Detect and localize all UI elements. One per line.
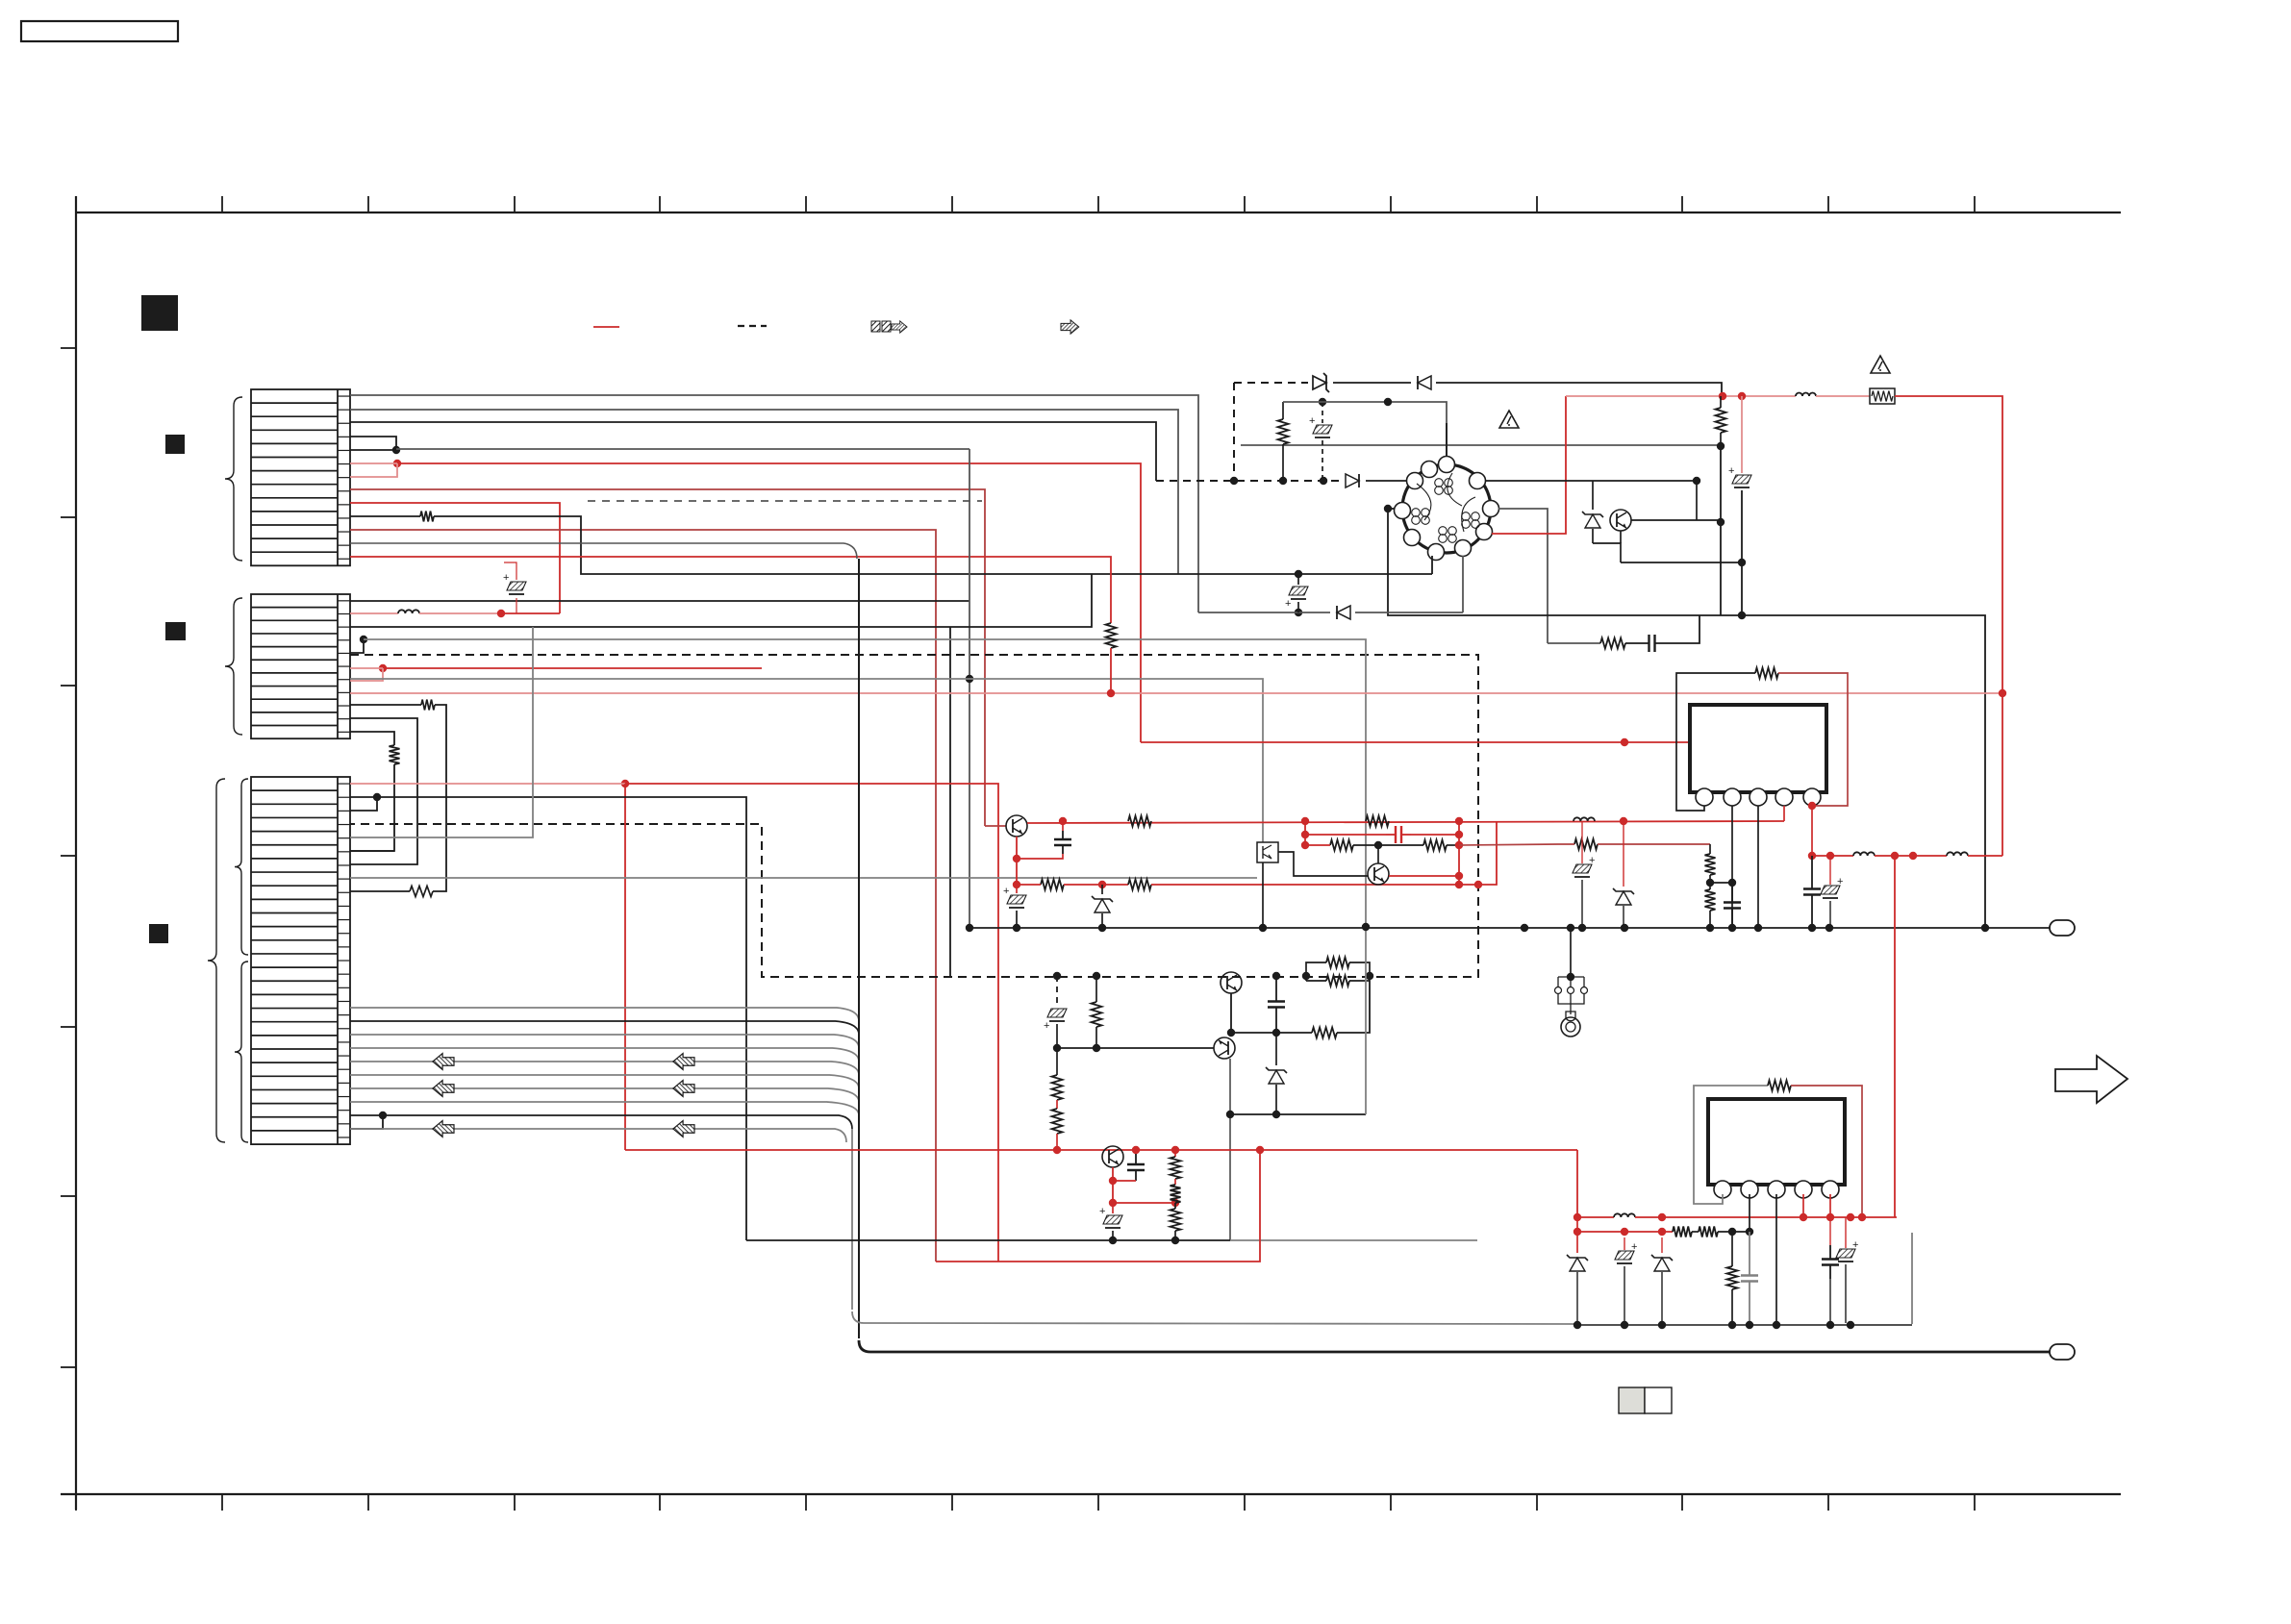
node elco col a <box>1738 559 1746 566</box>
wire y1074 <box>1231 1032 1312 1034</box>
node y1159 b <box>1272 1111 1280 1118</box>
node rb 1099 <box>1053 1146 1061 1154</box>
dashed net vertical <box>1233 383 1235 481</box>
wire red right col <box>2001 693 2003 856</box>
node T4 920 <box>1013 881 1020 888</box>
wire diode row b <box>1355 612 1463 613</box>
wire drum S stub1 <box>1431 556 1433 574</box>
wire bus to drum <box>1366 480 1406 482</box>
legend dashed wire sample <box>738 325 767 327</box>
wire CN2 pin5 stub <box>350 639 364 653</box>
node red y772 <box>1621 738 1628 746</box>
wire gnd tap <box>1570 928 1572 977</box>
page link arrow <box>2055 1056 2127 1103</box>
node gnd 1828 <box>1754 924 1762 932</box>
node x1140 base <box>1093 1044 1100 1052</box>
wire CN3 y885 <box>350 850 394 852</box>
wire red y1251 <box>1113 1202 1175 1204</box>
node bus1290 a <box>1109 1237 1117 1244</box>
wire break arrow at 696,1132 <box>673 1081 694 1097</box>
wire zener top <box>1592 481 1594 508</box>
wire CN1 pin6 red <box>350 463 1141 742</box>
resistor R x1801 <box>1727 1232 1738 1325</box>
wire CN2 pin1 black <box>350 449 969 928</box>
node r854 b <box>1301 817 1309 825</box>
border tick marks bottom <box>76 1494 1975 1511</box>
resistor R y1074 <box>1312 981 1370 1038</box>
wire x1420 lower <box>1365 927 1367 1114</box>
node gnd2 1924 <box>1847 1321 1854 1329</box>
transistor Q T2 <box>1214 1037 1235 1059</box>
wire T2 base <box>1057 1047 1214 1049</box>
node x1140 dashed <box>1093 972 1100 980</box>
wire T4 feed <box>985 825 1006 827</box>
warning symbol 1 <box>1499 411 1519 428</box>
node gnd 1689 <box>1621 924 1628 932</box>
diode D2 top row <box>1418 376 1431 389</box>
connector CN2 brace <box>225 598 242 735</box>
capacitor C T3 <box>1113 1150 1145 1181</box>
node CN3 red top <box>621 780 629 787</box>
node div a <box>1706 879 1714 887</box>
red loop bottom <box>936 1150 1260 1262</box>
capacitor C elco x1645 <box>1573 821 1595 928</box>
node elco col b <box>1738 612 1746 619</box>
wire CN1 pin8 red <box>350 503 560 613</box>
IC U1 pins <box>1696 788 1821 806</box>
node gnd2 1801 <box>1728 1321 1736 1329</box>
node feeder drum left <box>1384 505 1392 512</box>
node gnd2 1903 <box>1826 1321 1834 1329</box>
node resistor col mid <box>1717 518 1725 526</box>
diode D3 on bus <box>1346 474 1359 487</box>
node gray row y597 <box>1295 570 1302 578</box>
resistor pair loop <box>1306 958 1370 987</box>
node IC2 b <box>1573 1228 1581 1236</box>
capacitor C elco T3 <box>1099 1203 1122 1240</box>
border frame left line <box>75 196 77 1510</box>
wire drum vert down <box>1388 509 1985 928</box>
fuse F1 <box>1870 388 1895 404</box>
wire U1 pin3 down <box>1757 806 1759 928</box>
node y920 z <box>1098 881 1106 888</box>
wire CN2 pin9 jumper with R <box>350 700 446 897</box>
wire y1266 b <box>1635 1216 1897 1218</box>
wire CN3 red top <box>350 784 998 1262</box>
wire T3 em2 <box>1112 1181 1114 1203</box>
node rb 1310 <box>1256 1146 1264 1154</box>
wire top row to red bus <box>1436 383 1722 396</box>
node CN3 stub 1162 <box>379 1112 387 1119</box>
zener ZD x1728 <box>1651 1237 1673 1323</box>
wire U2 pin4 down <box>1802 1194 1804 1217</box>
wire CN2 red to vert <box>501 612 560 614</box>
wire y879 m <box>1353 844 1423 846</box>
node x1099 base <box>1053 1044 1061 1052</box>
resistor R y920 b <box>1128 880 1478 890</box>
resistor R U1 loop <box>1755 668 1778 679</box>
capacitor C drum-RC <box>1625 615 1699 652</box>
wire CN1 pin4 stub <box>350 437 396 450</box>
node gnd 1801 <box>1728 924 1736 932</box>
zener ZD right <box>1582 508 1603 543</box>
node y920 r1 <box>1455 881 1463 888</box>
node dashed bus 1 <box>1230 477 1238 485</box>
capacitor C elco drum <box>1285 574 1308 612</box>
transistor Q T5 <box>1368 863 1389 885</box>
node y890 a <box>1826 852 1834 860</box>
node y1287 1689 <box>1621 1228 1628 1236</box>
wire Q collector <box>1631 519 1721 521</box>
wire CN2 pin6 red <box>350 667 762 669</box>
resistor R y1287 a <box>1673 1227 1692 1237</box>
wire break arrow at 696,1174 <box>673 1121 694 1137</box>
wire U1 pin2 down <box>1731 806 1733 928</box>
gray feeder line y418 <box>1283 402 1447 467</box>
wire U1 pin5 down <box>1811 806 1813 856</box>
wire bundle vertical <box>858 559 860 1338</box>
node loop <box>1302 972 1310 980</box>
connector 3pin <box>1555 977 1588 1014</box>
wire CN2 pin10 jumper <box>350 718 417 864</box>
node bus1290 b <box>1171 1237 1179 1244</box>
resistor R below red bus <box>1716 396 1726 446</box>
resistor R div lower <box>1705 883 1716 928</box>
node pink-vert <box>1107 689 1115 697</box>
node loop b <box>1366 972 1373 980</box>
wire x1517 column <box>1458 821 1460 885</box>
wire CN3 gray y912 <box>350 877 1257 879</box>
section marker square 1 <box>141 295 178 331</box>
wire red to fuse <box>1816 395 1870 397</box>
dashed box path <box>350 655 1478 977</box>
wire gray up x1988 <box>1911 1233 1913 1324</box>
wire CN2 pin7 stub red <box>350 668 383 681</box>
svg-text:+: + <box>1631 1241 1637 1253</box>
wire y890 r <box>1968 855 2002 857</box>
svg-text:+: + <box>1837 876 1843 887</box>
border tick marks top <box>76 196 1975 212</box>
red row y890 <box>1812 855 1853 857</box>
node T1 c <box>1227 1029 1235 1037</box>
node y879 l <box>1301 841 1309 849</box>
resistor R y854 a <box>1128 816 1151 827</box>
node gnd 1585 <box>1521 924 1528 932</box>
resistor R y854 b <box>1366 816 1389 827</box>
wire U1 pin4 down <box>1783 806 1785 821</box>
node y1266 1919 <box>1847 1213 1854 1221</box>
wire U2 pin2 down <box>1749 1194 1750 1232</box>
connector CN2 body <box>251 594 350 738</box>
node gray feed <box>1717 442 1725 450</box>
resistor R x1222 b <box>1171 1185 1181 1203</box>
wire T2 down <box>1229 1059 1231 1240</box>
node T3 a <box>1109 1177 1117 1185</box>
node gnd 1146 <box>1098 924 1106 932</box>
wire CN1 pin2 gray run <box>350 410 1178 574</box>
resistor R U2 loop <box>1768 1081 1791 1091</box>
wire CN3 stub 1175 <box>350 1115 383 1129</box>
node cap T1 <box>1272 972 1280 980</box>
node pink-right <box>1999 689 2006 697</box>
wire U2 loop red <box>1791 1086 1862 1217</box>
node y890 b <box>1891 852 1899 860</box>
resistor R x1140 <box>1092 976 1102 1048</box>
node y890 c <box>1909 852 1917 860</box>
wire elco col down <box>1741 562 1743 615</box>
wire CN3 pin stub 843 <box>350 797 377 811</box>
diode D4 gray row <box>1337 606 1350 619</box>
node T5 out <box>1455 872 1463 880</box>
capacitor C div <box>1724 883 1741 928</box>
IC U1 body <box>1690 705 1826 792</box>
zener ZD x1640 <box>1567 1255 1588 1323</box>
wire CN2 pin8 gray <box>350 679 1263 842</box>
terminal oval right <box>2050 920 2075 936</box>
resistor R y1287 b <box>1692 1227 1750 1237</box>
border frame bottom line <box>61 1493 2121 1495</box>
wire CN1 pin7 red <box>350 489 985 826</box>
wire CN2 pin3 black <box>350 574 1092 976</box>
wire U2 pin1 loop <box>1694 1086 1768 1204</box>
node U1 pin5 b <box>1808 852 1816 860</box>
capacitor C x1819 <box>1741 1232 1758 1325</box>
wire IC2 col <box>1576 1215 1578 1253</box>
wire fuse to right red <box>1895 396 2002 693</box>
zener ZD y920 <box>1092 885 1113 928</box>
resistor R red col x1155 <box>1106 623 1117 693</box>
terminal oval bottom <box>2050 1344 2075 1360</box>
wire U2 pin5 down <box>1829 1194 1831 1217</box>
resistor R on CN1 pin10 <box>350 512 1432 575</box>
capacitor C elco y890 <box>1821 856 1843 928</box>
node red y1251 b <box>1171 1199 1179 1207</box>
svg-text:+: + <box>1589 855 1595 866</box>
resistor R div upper <box>1705 844 1716 883</box>
section marker square 3 <box>165 622 186 640</box>
drum rotary transformer <box>1395 457 1499 561</box>
node dashed bus 3 <box>1320 477 1327 485</box>
node CN1 red junction <box>393 460 401 467</box>
legend arrow symbol 1 <box>871 321 907 333</box>
diode D1 top dashed row <box>1313 373 1329 392</box>
wire U1 pin1 loop <box>1676 673 1755 811</box>
node U2 loop <box>1858 1213 1866 1221</box>
wire CN3 y829 long <box>350 797 746 1240</box>
node gnd 1902 <box>1825 924 1833 932</box>
wire CN3 bundle rows <box>350 1008 859 1115</box>
wire CN1 pin6 red stub <box>350 463 397 477</box>
wire CN2 gray y661 <box>364 639 1366 927</box>
wire T4 em2 <box>1016 859 1018 885</box>
node gnd2 1689 <box>1621 1321 1628 1329</box>
connector CN3 body <box>251 777 350 1144</box>
svg-text:+: + <box>1285 598 1291 610</box>
capacitor C x1903b <box>1822 1217 1839 1323</box>
red bus into IC2 <box>1576 1150 1578 1217</box>
wire thick bus 1404 <box>859 1340 2050 1352</box>
zener ZD x1688 <box>1613 821 1634 928</box>
red row y1266 <box>1577 1216 1614 1218</box>
node y879 mid <box>1374 841 1382 849</box>
legend square gray <box>1619 1387 1645 1413</box>
wire drum S stub2 <box>1462 556 1464 612</box>
node gnd tap <box>1567 973 1574 981</box>
red row y1287 <box>1577 1231 1673 1233</box>
red row y879 <box>1305 840 1353 851</box>
inductor L y890 a <box>1853 852 1875 856</box>
warning symbol 2 <box>1871 356 1890 373</box>
wire CN3 red vert <box>624 784 626 1150</box>
wire dashed segment y521 <box>588 500 982 502</box>
wire CN3 gray y872 <box>350 627 533 837</box>
node feeder 1 <box>1384 398 1392 406</box>
capacitor C T4 <box>1017 821 1071 859</box>
resistor R x1222 a <box>1171 1150 1181 1185</box>
red bus top <box>1566 395 1796 397</box>
optocoupler U3 <box>1257 842 1278 862</box>
wire T5 base link <box>1377 845 1379 863</box>
wire vertical x1764 <box>1696 481 1698 520</box>
node T3 b <box>1109 1199 1117 1207</box>
node red bus 1 <box>1719 392 1726 400</box>
wire CN2 pin11 jumper with R <box>350 732 400 851</box>
wire div link <box>1710 882 1732 884</box>
node gnd 1313 <box>1259 924 1267 932</box>
resistor R y920 a <box>1017 880 1064 890</box>
IC U2 body <box>1708 1099 1845 1185</box>
resistor R vertical above bus <box>1278 402 1289 481</box>
node T4 em <box>1013 855 1020 862</box>
svg-text:+: + <box>1044 1020 1049 1032</box>
node dashed bus 2 <box>1279 477 1287 485</box>
black bus y1290 <box>746 1239 1477 1241</box>
dashed col x1099 <box>1056 976 1058 1006</box>
wire CN1 pin3 black run <box>350 422 1156 481</box>
wire T1 collector <box>1230 993 1232 1033</box>
wire drum NE out <box>1485 480 1697 482</box>
wire drum left stub <box>1388 508 1395 510</box>
node rb 1222 <box>1171 1146 1179 1154</box>
node y879 r <box>1455 841 1463 849</box>
node div gnd <box>1706 924 1714 932</box>
wire T3 em <box>1112 1167 1114 1181</box>
red row y868 <box>1305 826 1459 843</box>
wire y879 to divider <box>1459 844 1558 845</box>
wire T5 out <box>1389 875 1459 877</box>
legend square white <box>1645 1387 1672 1413</box>
wire gray y463 right <box>1241 444 1721 446</box>
wire CN1 pin1 gray run <box>350 395 1198 612</box>
connector CN3 inner brace upper <box>235 779 248 955</box>
dashed net top horizontal <box>1234 382 1308 384</box>
wire U2 pin3 down <box>1775 1194 1777 1325</box>
node gnd2 1819 <box>1746 1321 1753 1329</box>
border frame top line <box>76 212 2121 213</box>
wire CN1 pin9 red <box>350 530 936 1262</box>
node gnd2 1640 <box>1573 1321 1581 1329</box>
resistor R x1099 upper <box>1052 1048 1063 1109</box>
wire break arrow at 446,1132 <box>433 1081 454 1097</box>
transistor Q T3 <box>1102 1146 1123 1167</box>
node drum NE line <box>1693 477 1700 485</box>
border tick marks left <box>61 348 76 1367</box>
wire CN2 pink long <box>350 692 2002 694</box>
node C top <box>1319 398 1326 406</box>
transistor Q right <box>1610 510 1631 531</box>
ring terminal ground lug <box>1561 1012 1580 1037</box>
node CN2 stub <box>360 636 367 643</box>
capacitor C elco T4b <box>1003 885 1026 928</box>
node gnd 1008 <box>966 924 973 932</box>
wire drum red out <box>1492 396 1566 534</box>
wire y1159 <box>1230 1113 1366 1115</box>
node y1287 1728 <box>1658 1228 1666 1236</box>
dashed bus segment <box>1156 480 1341 482</box>
node gnd 1884 <box>1808 924 1816 932</box>
wire break arrow at 696,1104 <box>673 1054 694 1070</box>
wire CN3 y1161 <box>350 1115 852 1310</box>
capacitor C elco x1919 <box>1836 1217 1858 1323</box>
capacitor C T1 <box>1268 976 1285 1033</box>
inductor L CN2 <box>350 610 501 613</box>
capacitor C elco x1689 <box>1615 1237 1637 1323</box>
connector CN3 outer brace <box>208 779 225 1142</box>
node rb 1181 <box>1132 1146 1140 1154</box>
capacitor C elco above bus <box>1309 402 1332 481</box>
svg-text:+: + <box>503 572 509 584</box>
wire drum right gray <box>1498 509 1548 643</box>
wire CN3 y1175 gray <box>350 1129 846 1142</box>
node gnd 1633 <box>1567 924 1574 932</box>
wire diode row a <box>1198 612 1330 613</box>
wire gray bus 1375 <box>852 1312 1912 1325</box>
node x1420 bus <box>1362 923 1370 931</box>
capacitor C y890 a <box>1803 856 1821 928</box>
node gnd2 1728 <box>1658 1321 1666 1329</box>
legend arrow symbol 2 <box>1061 320 1079 334</box>
node r854 a <box>1059 817 1067 825</box>
node y1266 1903 <box>1826 1213 1834 1221</box>
red row y854 <box>1027 821 1784 823</box>
node y1074 b <box>1272 1029 1280 1037</box>
inductor L y1266 <box>1614 1213 1635 1217</box>
wire opto to T5 <box>1278 852 1368 876</box>
node div b <box>1728 879 1736 887</box>
connector CN1 brace <box>225 397 242 561</box>
node gnd2 1847 <box>1773 1321 1780 1329</box>
wire U1 loop red <box>1778 673 1848 806</box>
node gnd 1645 <box>1578 924 1586 932</box>
wire drum top up <box>1446 423 1448 457</box>
node x1099 dashed <box>1053 972 1061 980</box>
wire opto gnd <box>1262 862 1264 928</box>
node r854 c <box>1455 817 1463 825</box>
wire resistor col down <box>1720 446 1722 615</box>
node red bus 2 <box>1738 392 1746 400</box>
capacitor C elco x1099 <box>1044 1009 1067 1048</box>
wire CN1 pin12 black <box>350 543 857 559</box>
title box <box>21 21 178 41</box>
inductor L y854 <box>1573 817 1595 821</box>
wire break arrow at 446,1104 <box>433 1054 454 1070</box>
resistor R drum-RC <box>1548 638 1625 649</box>
wire y890 m <box>1875 855 1947 857</box>
node y920 r2 <box>1474 881 1482 888</box>
node y1287 1819 <box>1746 1228 1753 1236</box>
resistor R y878 right <box>1558 839 1710 850</box>
resistor R y879 b <box>1423 840 1459 851</box>
